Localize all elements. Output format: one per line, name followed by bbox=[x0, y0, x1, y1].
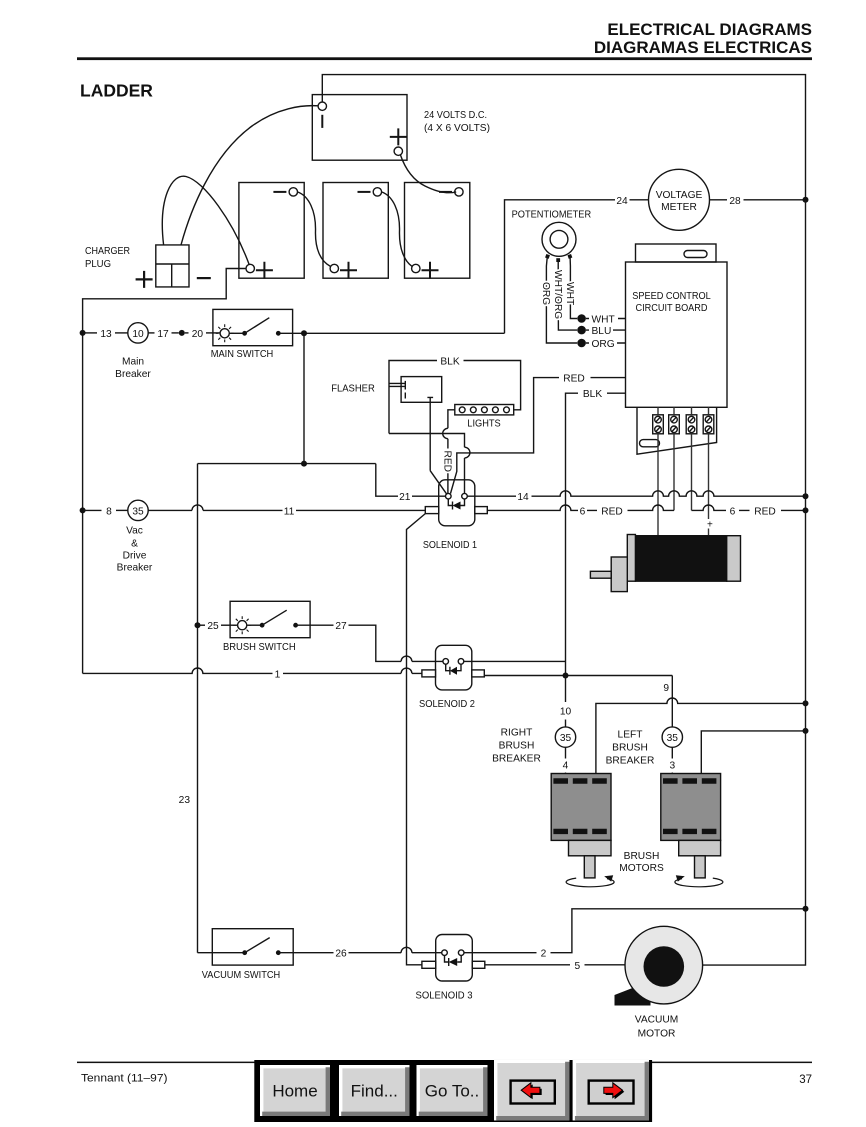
node rail-14 junction bbox=[803, 493, 809, 499]
wire 21 drop bbox=[376, 464, 398, 497]
svg-text:6: 6 bbox=[730, 506, 736, 517]
speed control board bottom bracket bbox=[637, 407, 717, 454]
left brush breaker 35 bbox=[662, 727, 682, 747]
main switch contact a bbox=[242, 331, 247, 336]
toolbar button Find bbox=[339, 1065, 410, 1116]
svg-text:RIGHT: RIGHT bbox=[501, 728, 533, 739]
speed control board top cap bbox=[636, 244, 717, 262]
battery B2 box bbox=[323, 183, 388, 279]
battery B1 minus mark bbox=[273, 191, 286, 193]
svg-text:10: 10 bbox=[132, 329, 144, 340]
speed control board top slot bbox=[684, 251, 707, 258]
solenoid1 coil terminal right bbox=[462, 493, 468, 499]
solenoid2 coil terminal right bbox=[458, 659, 464, 665]
vacuum switch contact b bbox=[276, 950, 281, 955]
svg-text:24: 24 bbox=[616, 196, 628, 207]
wire 25 segment bbox=[198, 624, 206, 626]
terminal block TB2 bbox=[669, 415, 680, 434]
wire RED into board bbox=[591, 377, 626, 379]
svg-text:14: 14 bbox=[517, 492, 529, 503]
svg-text:Main: Main bbox=[122, 357, 144, 368]
solenoid1 coil terminal left bbox=[446, 493, 452, 499]
svg-text:PLUG: PLUG bbox=[85, 259, 111, 270]
wire RED solenoid1 to board bbox=[451, 378, 560, 494]
wire 6 RED left bbox=[487, 505, 674, 510]
svg-text:SOLENOID 3: SOLENOID 3 bbox=[416, 991, 473, 1002]
wire 1 to solenoid2 tab bbox=[283, 672, 422, 674]
svg-text:27: 27 bbox=[335, 621, 347, 632]
hop 1 over riser bbox=[401, 668, 412, 673]
svg-text:8: 8 bbox=[106, 506, 112, 517]
wire BLK upper right to lights bbox=[464, 361, 521, 410]
potentiometer body bbox=[542, 222, 576, 256]
battery B3 minus mark bbox=[439, 191, 452, 193]
wire solenoid2 output bbox=[484, 675, 672, 677]
drive motor gearbox bbox=[611, 557, 627, 592]
wire 8 segment bbox=[83, 509, 102, 511]
wire 9 riser bbox=[671, 676, 673, 727]
solenoid3 coil terminal left bbox=[442, 950, 448, 956]
wire 463 cross line bbox=[198, 463, 376, 465]
svg-text:FLASHER: FLASHER bbox=[331, 384, 375, 395]
node 25 junction bbox=[195, 622, 201, 628]
svg-text:Drive: Drive bbox=[123, 551, 147, 562]
battery B4 plus mark bbox=[390, 128, 407, 145]
wire 11 segment bbox=[203, 509, 283, 511]
wire 24 to meter bbox=[630, 199, 649, 201]
charger wire to battery B4 negative bbox=[181, 106, 318, 245]
right brush motor M2 brush bars bbox=[553, 778, 606, 834]
svg-text:Home: Home bbox=[272, 1082, 317, 1101]
right motor rotation arrow bbox=[566, 878, 614, 887]
solenoid U2 body bbox=[436, 645, 472, 690]
toolbar button next bbox=[573, 1060, 649, 1121]
wire left motor to rail y731 bbox=[701, 731, 805, 774]
main switch blade bbox=[245, 318, 270, 334]
svg-text:VACUUM: VACUUM bbox=[635, 1015, 678, 1026]
wire main switch drop bbox=[303, 333, 305, 463]
flasher internal tick bbox=[404, 393, 406, 399]
svg-text:VOLTAGE: VOLTAGE bbox=[656, 190, 703, 201]
lights lamp 2 bbox=[470, 407, 476, 413]
solenoid3 coil terminal right bbox=[458, 950, 464, 956]
potentiometer lead WHT/ORG bbox=[558, 262, 577, 331]
solenoid U1 body bbox=[439, 480, 475, 526]
svg-text:BLU: BLU bbox=[592, 326, 612, 337]
lights lamp 5 bbox=[504, 407, 510, 413]
wire battery B1 positive to left rail bbox=[83, 269, 246, 333]
node output junction dot bbox=[563, 673, 569, 679]
node cross junction bbox=[301, 461, 307, 467]
wire 27 to solenoid2 coil bbox=[349, 625, 443, 661]
node rail-731 junction bbox=[803, 728, 809, 734]
lights lamp 3 bbox=[482, 407, 488, 413]
drive motor M1 body bbox=[635, 536, 726, 582]
svg-text:BREAKER: BREAKER bbox=[492, 754, 541, 765]
wire 25 to brush switch bbox=[221, 624, 237, 626]
main breaker 10 circle bbox=[128, 323, 148, 343]
svg-text:POTENTIOMETER: POTENTIOMETER bbox=[512, 210, 592, 221]
wire BLK vertical bbox=[566, 393, 579, 675]
svg-text:SOLENOID 2: SOLENOID 2 bbox=[419, 699, 475, 710]
svg-text:SOLENOID 1: SOLENOID 1 bbox=[423, 540, 477, 551]
battery B1 box bbox=[239, 183, 304, 279]
wire lights left drop lower bbox=[447, 439, 449, 493]
svg-text:RED: RED bbox=[754, 506, 776, 517]
node rail-2 junction bbox=[803, 906, 809, 912]
bracket slot bbox=[640, 440, 660, 447]
lights lamp 1 bbox=[459, 407, 465, 413]
wire 17-20 segment bbox=[172, 332, 179, 334]
battery B3 plus mark bbox=[422, 262, 439, 279]
solenoid1 right tab bbox=[475, 507, 488, 514]
jumper B1 negative to B2 positive bbox=[297, 192, 330, 266]
svg-text:VACUUM SWITCH: VACUUM SWITCH bbox=[202, 970, 280, 981]
wire BLK horizontal to solenoid1 right coil bbox=[389, 434, 465, 494]
main switch wire lamp to contact bbox=[229, 332, 244, 334]
charger wire to battery B1 positive bbox=[162, 176, 249, 264]
svg-text:WHT: WHT bbox=[564, 282, 575, 305]
wire ORG to board bbox=[586, 342, 626, 344]
brush switch blade bbox=[262, 610, 287, 625]
svg-text:BRUSH: BRUSH bbox=[624, 851, 660, 862]
svg-text:28: 28 bbox=[729, 196, 741, 207]
svg-text:MOTOR: MOTOR bbox=[638, 1029, 676, 1040]
battery B1 plus mark bbox=[256, 262, 273, 279]
toolbar button Go To bbox=[417, 1065, 488, 1116]
svg-text:WHT: WHT bbox=[592, 315, 615, 326]
svg-text:BLK: BLK bbox=[440, 357, 459, 368]
svg-text:23: 23 bbox=[179, 795, 191, 806]
right brush breaker 35 bbox=[555, 727, 575, 747]
potentiometer lead pads bbox=[545, 254, 550, 259]
battery B2 positive terminal bbox=[330, 264, 338, 272]
terminal block TB3 bbox=[686, 415, 697, 434]
left brush motor M3 shaft bbox=[695, 856, 706, 878]
svg-text:26: 26 bbox=[335, 949, 347, 960]
right brush motor M2 shaft bbox=[584, 856, 595, 878]
wire board terminal 1 to motor bbox=[657, 407, 659, 535]
battery B4 minus mark bbox=[321, 115, 323, 128]
battery B4 box bbox=[312, 95, 407, 161]
header rule bbox=[77, 57, 812, 60]
battery B1 positive terminal bbox=[246, 264, 254, 272]
wire board terminal 2 down bbox=[673, 407, 675, 510]
wire 13 segment bbox=[83, 332, 97, 334]
svg-text:CIRCUIT BOARD: CIRCUIT BOARD bbox=[636, 303, 708, 314]
brush switch wire to contact bbox=[247, 624, 262, 626]
wire 23 corner to vacuum switch bbox=[198, 952, 245, 954]
vac drive breaker 35 bbox=[128, 500, 148, 520]
wire below right breaker bbox=[565, 747, 567, 773]
svg-text:25: 25 bbox=[207, 621, 219, 632]
battery B3 negative terminal bbox=[455, 188, 463, 196]
svg-text:Vac: Vac bbox=[126, 526, 143, 537]
main switch box bbox=[213, 309, 293, 345]
left rail bbox=[82, 333, 84, 674]
wire 21 to solenoid1 bbox=[412, 495, 446, 497]
wire 2 segment bbox=[464, 952, 537, 954]
hop lights-left over horizontal bbox=[443, 428, 448, 438]
svg-text:&: & bbox=[131, 539, 138, 550]
battery B3 positive terminal bbox=[412, 264, 420, 272]
svg-text:35: 35 bbox=[667, 733, 679, 744]
brush switch box bbox=[230, 601, 310, 637]
next red arrow bbox=[604, 1083, 623, 1098]
wire BLK board to solenoid2 rail bbox=[607, 392, 626, 394]
svg-text:11: 11 bbox=[284, 506, 295, 517]
node rail-28 junction bbox=[803, 197, 809, 203]
svg-text:35: 35 bbox=[560, 733, 572, 744]
prev red arrow bbox=[521, 1083, 540, 1098]
wire main switch output bbox=[278, 332, 504, 334]
wire 10 drop bbox=[565, 676, 567, 727]
flasher output tee bbox=[427, 397, 433, 470]
left brush motor M3 brush bars bbox=[663, 778, 716, 834]
charger plug minus mark bbox=[197, 277, 211, 279]
battery B1 negative terminal bbox=[289, 188, 297, 196]
drive motor right cap bbox=[727, 536, 741, 582]
svg-text:6: 6 bbox=[580, 506, 586, 517]
terminal block TB1 bbox=[653, 415, 664, 434]
wire solenoid2 right coil to BLK riser bbox=[464, 660, 566, 662]
drive motor shaft bbox=[590, 571, 611, 578]
wire 5 to vacuum motor bbox=[585, 964, 626, 966]
prev red arrow shadow bbox=[523, 1084, 542, 1099]
battery B2 negative terminal bbox=[373, 188, 381, 196]
node 17-20 junction bbox=[179, 330, 185, 336]
wire 2 riser to rail bbox=[551, 909, 806, 953]
vacuum switch contact a bbox=[242, 950, 247, 955]
wire board terminal 4 to motor plus bbox=[708, 407, 710, 535]
brush switch contact b bbox=[293, 623, 298, 628]
hop 11-line over 23 riser bbox=[192, 505, 203, 510]
svg-text:1: 1 bbox=[275, 669, 281, 680]
main switch contact b bbox=[276, 331, 281, 336]
hop 26 over riser bbox=[401, 947, 412, 952]
svg-text:ELECTRICAL DIAGRAMS: ELECTRICAL DIAGRAMS bbox=[607, 20, 812, 39]
brush switch contact a bbox=[260, 623, 265, 628]
vacuum switch blade bbox=[245, 938, 270, 953]
svg-text:4: 4 bbox=[563, 760, 569, 771]
vacuum motor M4 foot bbox=[615, 986, 651, 1006]
vacuum switch box bbox=[212, 929, 293, 965]
svg-text:BRUSH: BRUSH bbox=[612, 743, 648, 754]
svg-text:METER: METER bbox=[661, 202, 697, 213]
svg-text:10: 10 bbox=[560, 707, 572, 718]
svg-text:LIGHTS: LIGHTS bbox=[467, 419, 501, 430]
solenoid U3 body bbox=[436, 935, 473, 982]
potentiometer lead ORG bbox=[546, 258, 577, 344]
toolbar button prev bbox=[494, 1060, 570, 1121]
node BLU dot bbox=[577, 326, 586, 335]
node ORG dot bbox=[577, 339, 586, 348]
svg-text:21: 21 bbox=[399, 492, 411, 503]
brush switch lamp symbol bbox=[238, 621, 247, 630]
svg-text:Breaker: Breaker bbox=[115, 369, 151, 380]
footer rule bbox=[77, 1062, 812, 1064]
svg-text:CHARGER: CHARGER bbox=[85, 246, 130, 257]
svg-text:2: 2 bbox=[541, 949, 547, 960]
svg-text:BREAKER: BREAKER bbox=[606, 756, 655, 767]
left motor rotation arrow bbox=[675, 878, 723, 887]
terminal block TB4 bbox=[703, 415, 714, 434]
svg-text:24 VOLTS D.C.: 24 VOLTS D.C. bbox=[424, 110, 487, 121]
wire 35 to hop bbox=[148, 509, 192, 511]
drive motor left cap bbox=[627, 535, 635, 582]
svg-text:9: 9 bbox=[663, 683, 669, 694]
charger plug plus mark bbox=[136, 271, 153, 288]
svg-text:WHT/ORG: WHT/ORG bbox=[552, 270, 563, 319]
node main switch output junction bbox=[301, 330, 307, 336]
solenoid1 diode D1 bbox=[448, 499, 464, 510]
solenoid2 left tab bbox=[422, 670, 436, 677]
battery B4 negative terminal bbox=[318, 102, 326, 110]
svg-text:BRUSH SWITCH: BRUSH SWITCH bbox=[223, 642, 296, 653]
toolbar strip bbox=[254, 1060, 652, 1122]
svg-text:RED: RED bbox=[563, 374, 585, 385]
node rail-6red junction bbox=[803, 507, 809, 513]
right brush motor M2 body bbox=[551, 774, 611, 841]
svg-text:RED: RED bbox=[601, 506, 623, 517]
wire 28 to rail bbox=[744, 199, 806, 201]
wire 20 segment bbox=[185, 332, 189, 334]
lights lamp 4 bbox=[493, 407, 499, 413]
wire 26 to solenoid3 bbox=[349, 952, 442, 954]
right rail lower segment to vacuum motor bbox=[703, 200, 806, 965]
svg-text:13: 13 bbox=[100, 329, 112, 340]
solenoid2 diode D2 bbox=[446, 664, 461, 675]
node WHT dot bbox=[577, 314, 586, 323]
vacuum motor M4 body bbox=[625, 926, 703, 1004]
wire 27 segment bbox=[296, 624, 334, 626]
voltage meter circle bbox=[649, 169, 710, 230]
wire 1 from rail bbox=[83, 668, 273, 673]
speed control board U1 bbox=[626, 262, 728, 407]
svg-text:MOTORS: MOTORS bbox=[619, 863, 664, 874]
wire below left breaker bbox=[671, 747, 673, 773]
toolbar button Home bbox=[260, 1065, 330, 1116]
svg-text:20: 20 bbox=[192, 329, 204, 340]
BLK net upper: lights to flasher branch bbox=[389, 361, 437, 434]
wire 14 to rail with hops bbox=[532, 491, 806, 496]
node rail-13 junction bbox=[80, 330, 86, 336]
solenoid3 diode D3 bbox=[445, 956, 462, 967]
solenoid2 coil terminal left bbox=[443, 659, 449, 665]
svg-text:Find...: Find... bbox=[351, 1082, 398, 1101]
jumper B2 negative to B3 positive bbox=[382, 192, 412, 266]
hop blk-drop over red wire bbox=[465, 447, 470, 458]
solenoid1 left tab bbox=[425, 507, 438, 514]
svg-text:LEFT: LEFT bbox=[618, 730, 643, 741]
charger plug body bbox=[156, 245, 189, 287]
svg-text:5: 5 bbox=[574, 961, 580, 972]
wire 11 to solenoid1 left tab bbox=[296, 509, 425, 511]
left brush motor M3 body bbox=[661, 774, 721, 841]
svg-text:Breaker: Breaker bbox=[117, 563, 153, 574]
flasher input stubs bbox=[389, 381, 405, 390]
right brush motor M2 end cap bbox=[569, 840, 612, 855]
svg-text:RED: RED bbox=[441, 451, 452, 473]
lights box bbox=[455, 405, 514, 415]
svg-text:17: 17 bbox=[157, 329, 169, 340]
wire meter to 28 bbox=[710, 199, 728, 201]
node rail-8 junction bbox=[80, 507, 86, 513]
svg-text:ORG: ORG bbox=[540, 282, 551, 305]
node rail-703 junction bbox=[803, 700, 809, 706]
svg-text:SPEED CONTROL: SPEED CONTROL bbox=[632, 291, 711, 302]
wire board terminal 3 down bbox=[691, 407, 693, 510]
wire 10-17 segment bbox=[148, 332, 154, 334]
wire flasher output to solenoid1 left coil bbox=[430, 471, 446, 494]
hop 27 over riser bbox=[401, 656, 412, 661]
left brush motor M3 end cap bbox=[679, 840, 721, 855]
svg-text:3: 3 bbox=[669, 760, 675, 771]
wire 24 riser bbox=[505, 200, 616, 333]
flasher box bbox=[401, 377, 442, 403]
wire 8-35 segment bbox=[116, 509, 128, 511]
svg-text:MAIN SWITCH: MAIN SWITCH bbox=[211, 349, 274, 360]
wire BLU to board bbox=[586, 329, 626, 331]
svg-text:Tennant (11–97): Tennant (11–97) bbox=[81, 1073, 168, 1085]
wire top bus from battery negative to right rail bbox=[322, 75, 805, 200]
battery B3 box bbox=[405, 183, 470, 279]
wire right motor to rail y703 bbox=[596, 698, 806, 774]
wire 26 segment bbox=[278, 952, 333, 954]
solenoid3 right tab bbox=[472, 961, 485, 968]
vacuum motor hub bbox=[644, 946, 685, 987]
main switch lamp symbol bbox=[220, 329, 229, 338]
wire solenoid1 tab to solenoid3 tab riser bbox=[407, 514, 426, 965]
svg-text:35: 35 bbox=[132, 506, 144, 517]
jumper B4 positive to B3 negative bbox=[401, 155, 457, 193]
wire lights left drop (RED) bbox=[448, 410, 455, 429]
svg-text:DIAGRAMAS ELECTRICAS: DIAGRAMAS ELECTRICAS bbox=[594, 38, 812, 57]
solenoid3 left tab bbox=[422, 961, 436, 968]
svg-text:(4 X 6 VOLTS): (4 X 6 VOLTS) bbox=[424, 123, 490, 134]
solenoid2 right tab bbox=[472, 670, 485, 677]
wire 6 RED right bbox=[692, 505, 806, 510]
wire 13-10 segment bbox=[115, 332, 128, 334]
wire 23 riser top bbox=[197, 464, 199, 953]
svg-text:BLK: BLK bbox=[583, 389, 602, 400]
battery B2 minus mark bbox=[358, 191, 371, 193]
battery B2 plus mark bbox=[340, 262, 357, 279]
svg-text:+: + bbox=[707, 520, 713, 531]
svg-text:BRUSH: BRUSH bbox=[499, 741, 535, 752]
wire WHT to board bbox=[586, 318, 626, 320]
next red arrow shadow bbox=[606, 1084, 625, 1099]
svg-text:37: 37 bbox=[799, 1074, 812, 1086]
wire 14 segment bbox=[467, 495, 516, 497]
svg-text:Go To..: Go To.. bbox=[425, 1082, 480, 1101]
svg-text:ORG: ORG bbox=[592, 339, 615, 350]
potentiometer lead WHT bbox=[570, 258, 577, 319]
wire 5 segment bbox=[485, 964, 570, 966]
battery B4 positive terminal bbox=[394, 147, 402, 155]
wire 20 to main switch bbox=[206, 332, 220, 334]
svg-text:LADDER: LADDER bbox=[80, 81, 153, 101]
